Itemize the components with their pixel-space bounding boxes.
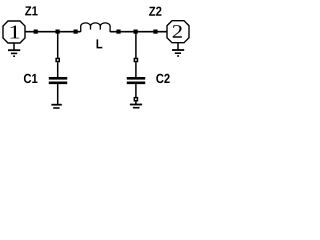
node (C2 top terminal, open square) [134,58,139,63]
node junction (C1 tap) [56,30,60,34]
port P2 pin number 2 [173,25,182,38]
wire inductor to port2 [110,31,167,33]
port P2 (octagon symbol) [167,21,189,43]
port P1 pin number 1 [10,26,19,39]
capacitor C2 [127,62,145,97]
label Z2 [149,7,161,16]
wire junction down to C2 [135,32,137,58]
wire port1 to inductor [25,31,81,33]
ground (under port P1) [8,43,20,56]
capacitor C1 [49,62,67,104]
port P1 (octagon symbol) [3,21,25,43]
inductor L coil [81,23,110,32]
node (L left terminal) [74,30,78,34]
node (C2 bottom terminal, open square) [134,97,139,102]
node junction (C2 tap) [134,30,138,34]
ground (under port P2) [172,43,184,56]
wire junction down to C1 [57,32,59,58]
node (wire end at port 2) [153,30,157,34]
ground (under C2) [130,102,142,108]
node (wire end at port 1) [34,30,38,34]
label Z1 [25,6,37,15]
label L [97,39,103,48]
node (C1 top terminal, open square) [55,58,60,63]
label C2 [156,74,169,83]
label C1 [24,74,38,83]
node (L right terminal) [116,30,120,34]
ground (under C1) [51,105,61,108]
